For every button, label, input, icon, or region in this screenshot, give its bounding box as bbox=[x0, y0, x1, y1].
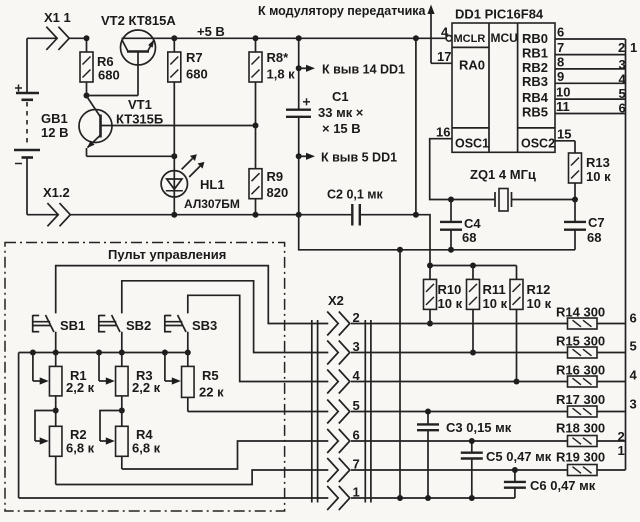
capacitor C3 bbox=[417, 412, 512, 499]
svg-text:R15 300: R15 300 bbox=[556, 334, 605, 349]
node bus-R5 wiper bbox=[162, 350, 168, 356]
IC DD1 PIC16F84 title bbox=[455, 7, 544, 22]
pin 7 RB1 wire bbox=[555, 40, 626, 55]
connector X1.2 label bbox=[43, 185, 70, 200]
svg-text:Пульт управления: Пульт управления bbox=[108, 247, 226, 262]
wire R18 to bus bbox=[597, 440, 626, 442]
IC DD1 cell labels bbox=[454, 31, 556, 151]
node C4-ground rail bbox=[448, 247, 454, 253]
svg-text:VT1: VT1 bbox=[128, 97, 152, 112]
transistor VT2 label bbox=[101, 13, 176, 28]
resistor R3 bbox=[116, 353, 161, 411]
node rail-R7 bbox=[171, 35, 177, 41]
svg-text:OSC2: OSC2 bbox=[521, 137, 555, 151]
connector X1.1 label bbox=[44, 10, 71, 25]
connector X2 pin 5 number bbox=[353, 398, 360, 413]
resistor R10 bbox=[424, 266, 463, 324]
svg-text:RB3: RB3 bbox=[522, 74, 548, 89]
wire R5 to X2 pin 5 bbox=[188, 411, 328, 413]
svg-text:OSC1: OSC1 bbox=[455, 137, 489, 151]
transistor VT2 bbox=[121, 30, 156, 96]
node R12-row4 bbox=[514, 379, 520, 385]
capacitor C6 bbox=[504, 470, 596, 498]
node R10-row2 bbox=[427, 321, 433, 327]
svg-text:17: 17 bbox=[437, 49, 451, 64]
svg-text:С4: С4 bbox=[464, 216, 481, 231]
resistor R19 bbox=[556, 450, 605, 476]
node R11-row3 bbox=[470, 350, 476, 356]
svg-text:RB0: RB0 bbox=[522, 31, 548, 46]
svg-text:R10: R10 bbox=[438, 282, 462, 297]
svg-text:+5 В: +5 В bbox=[197, 24, 225, 39]
svg-text:R14 300: R14 300 bbox=[556, 305, 605, 320]
IC DD1 body bbox=[452, 23, 555, 152]
svg-text:3: 3 bbox=[619, 57, 626, 72]
capacitor C2 bbox=[299, 188, 416, 226]
svg-text:R11: R11 bbox=[483, 282, 506, 297]
transistor VT1 labels bbox=[116, 97, 163, 127]
node C1-ground bbox=[296, 153, 302, 159]
svg-text:10 к: 10 к bbox=[438, 296, 463, 311]
node R3-R4 junction bbox=[119, 408, 125, 414]
connector X2 pin 1 number bbox=[353, 485, 360, 500]
svg-text:68: 68 bbox=[587, 230, 601, 245]
wire to pin 5 DD1 bbox=[299, 151, 397, 165]
connector X1.1 chevrons bbox=[46, 27, 69, 50]
svg-text:RB1: RB1 bbox=[522, 46, 548, 61]
resistor R14 bbox=[556, 305, 605, 330]
connector X2 pin 7 chevrons bbox=[327, 458, 350, 482]
wire R16 to bus bbox=[597, 381, 626, 383]
resistor R12 bbox=[510, 266, 552, 382]
resistor R11 bbox=[467, 266, 508, 353]
svg-text:R9: R9 bbox=[267, 169, 284, 184]
resistor R1 bbox=[49, 353, 94, 411]
node C6-row7 bbox=[512, 467, 518, 473]
net number labels at bus top bbox=[618, 40, 637, 116]
wire R15 to bus bbox=[597, 352, 626, 354]
wire X2 row 5 to resistor R17 bbox=[351, 411, 568, 413]
svg-text:× 15 В: × 15 В bbox=[322, 121, 361, 136]
wire R8 to R9 junction bbox=[255, 82, 257, 126]
pin 15 OSC2 wire bbox=[555, 127, 575, 142]
wire R14 to bus bbox=[597, 323, 626, 325]
svg-text:С3 0,15 мк: С3 0,15 мк bbox=[446, 420, 512, 435]
node header-+5V bbox=[427, 263, 433, 269]
wire SB2 net to X2 pin 3 bbox=[122, 281, 328, 353]
transistor VT1 bbox=[79, 96, 256, 156]
svg-text:6: 6 bbox=[557, 25, 564, 40]
svg-text:22 к: 22 к bbox=[199, 385, 224, 400]
wire to pin 14 DD1 bbox=[299, 63, 405, 77]
battery GB1 bbox=[14, 38, 68, 214]
wire SB1 net to X2 pin 2 bbox=[56, 266, 329, 324]
node ground-down leg bbox=[397, 247, 403, 253]
svg-text:R12: R12 bbox=[527, 282, 551, 297]
svg-text:1: 1 bbox=[630, 40, 637, 55]
svg-text:10 к: 10 к bbox=[483, 296, 508, 311]
wire pull-up header bbox=[430, 265, 517, 267]
pin 9 RB3 wire bbox=[555, 69, 626, 84]
svg-text:К модулятору передатчика: К модулятору передатчика bbox=[258, 4, 427, 18]
R1 wiper arrow bbox=[33, 353, 49, 385]
pin 6 RB0 wire bbox=[555, 25, 626, 40]
svg-text:С5 0,47 мк: С5 0,47 мк bbox=[486, 449, 552, 464]
connector X2 pin 2 chevrons bbox=[327, 312, 350, 336]
+5V label bbox=[197, 24, 225, 39]
node HL1-ground bbox=[171, 212, 177, 218]
wire R17 to bus bbox=[597, 411, 626, 413]
capacitor C5 bbox=[461, 441, 552, 498]
svg-text:R18 300: R18 300 bbox=[556, 421, 605, 436]
svg-text:6,8 к: 6,8 к bbox=[132, 441, 161, 456]
svg-text:68: 68 bbox=[462, 230, 476, 245]
svg-text:Х1 1: Х1 1 bbox=[44, 10, 71, 25]
resistor R9 bbox=[249, 126, 288, 215]
node bus-SB2 bbox=[119, 350, 125, 356]
R2 wiper arrow bbox=[35, 411, 56, 445]
wire SB3 net to X2 pin 4 bbox=[188, 295, 328, 381]
resistor R6 bbox=[80, 38, 120, 95]
resistor R15 bbox=[556, 334, 605, 359]
node R6-VT1 junction bbox=[84, 93, 90, 99]
wire common bus bbox=[19, 352, 188, 354]
LED HL1 bbox=[161, 154, 204, 214]
connector X2 pin 7 number bbox=[353, 457, 360, 472]
node +5V leg C2 bbox=[413, 212, 419, 218]
svg-text:RB2: RB2 bbox=[522, 60, 548, 75]
wire X2 row 1 ground bbox=[19, 497, 515, 499]
wire C1 ground down bbox=[298, 156, 300, 215]
wire VT1 emitter to HL1 bbox=[87, 155, 175, 157]
svg-text:MCU: MCU bbox=[491, 31, 518, 45]
svg-text:АЛ307БМ: АЛ307БМ bbox=[184, 197, 240, 211]
resistor R2 bbox=[49, 411, 94, 485]
crystal ZQ1 label bbox=[470, 167, 536, 182]
svg-text:R7: R7 bbox=[186, 50, 203, 65]
capacitor C1 bbox=[286, 38, 311, 156]
node rail-R6 bbox=[84, 35, 90, 41]
pin 4 label bbox=[441, 25, 449, 40]
pushbutton SB1 bbox=[33, 315, 86, 353]
svg-text:2: 2 bbox=[618, 40, 625, 55]
node crystal right bbox=[572, 197, 578, 203]
svg-text:SB3: SB3 bbox=[192, 318, 217, 333]
svg-text:9: 9 bbox=[557, 69, 564, 84]
resistor R16 bbox=[556, 363, 605, 388]
label X2 bbox=[328, 293, 344, 308]
connector X2 pin 3 chevrons bbox=[327, 341, 350, 365]
svg-text:5: 5 bbox=[630, 339, 637, 354]
svg-text:5: 5 bbox=[619, 86, 626, 101]
resistor R5 bbox=[182, 353, 225, 412]
wire ground rail bbox=[299, 215, 575, 250]
bus net number 4 bbox=[630, 368, 638, 383]
svg-text:VT2 КТ815А: VT2 КТ815А bbox=[101, 13, 176, 28]
wire X2 row 7 to resistor R19 bbox=[351, 469, 568, 471]
svg-text:680: 680 bbox=[186, 67, 208, 82]
node bus-SB1 bbox=[53, 350, 59, 356]
svg-text:6: 6 bbox=[619, 101, 626, 116]
node row1-ground leg bbox=[397, 495, 403, 501]
svg-text:С7: С7 bbox=[588, 215, 605, 230]
pin 16 OSC1 wire bbox=[430, 125, 452, 200]
svg-text:SB1: SB1 bbox=[60, 318, 85, 333]
svg-text:2: 2 bbox=[618, 429, 625, 444]
capacitor C4 bbox=[440, 200, 481, 250]
svg-text:R8*: R8* bbox=[267, 50, 290, 65]
connector X2 pin 5 chevrons bbox=[327, 400, 350, 424]
svg-text:К выв 5 DD1: К выв 5 DD1 bbox=[321, 151, 397, 165]
connector X2 body lines bbox=[312, 320, 371, 503]
pin 17 RA0 wire bbox=[431, 49, 452, 64]
connector X2 pin 4 number bbox=[353, 368, 361, 383]
svg-text:4: 4 bbox=[630, 368, 638, 383]
svg-text:RA0: RA0 bbox=[459, 58, 485, 73]
node crystal left bbox=[448, 197, 454, 203]
wire RA0 to modulator arrow bbox=[427, 5, 434, 64]
svg-text:11: 11 bbox=[556, 99, 570, 114]
svg-text:10: 10 bbox=[556, 85, 570, 100]
node R1-R2 junction bbox=[53, 408, 59, 414]
R3 wiper arrow bbox=[99, 353, 115, 385]
svg-text:RB4: RB4 bbox=[522, 90, 549, 105]
node R9-ground bbox=[253, 212, 259, 218]
wire X2 row 4 to resistor R16 bbox=[351, 381, 568, 383]
svg-text:33 мк ×: 33 мк × bbox=[318, 105, 364, 120]
svg-text:R16 300: R16 300 bbox=[556, 363, 605, 378]
wire X1.2 to ground line bbox=[27, 214, 299, 216]
connector X2 pin 3 number bbox=[353, 339, 360, 354]
svg-text:ZQ1 4 МГц: ZQ1 4 МГц bbox=[470, 167, 536, 182]
svg-text:Х1.2: Х1.2 bbox=[43, 185, 70, 200]
svg-text:12 В: 12 В bbox=[41, 125, 68, 140]
svg-text:3: 3 bbox=[630, 397, 637, 412]
resistor R17 bbox=[556, 392, 605, 417]
pin 11 RB5 wire bbox=[555, 99, 626, 114]
wire X2 row 3 to resistor R15 bbox=[351, 352, 568, 354]
pin 4 MCLR inversion circle bbox=[446, 35, 452, 41]
svg-text:С2 0,1 мк: С2 0,1 мк bbox=[327, 188, 384, 202]
node C5-row6 bbox=[469, 438, 475, 444]
node R8-R9-base junction bbox=[253, 123, 259, 129]
connector X2 pin 4 chevrons bbox=[327, 370, 350, 394]
connector X2 pin 6 chevrons bbox=[327, 429, 350, 453]
node bus-SB3 bbox=[185, 350, 191, 356]
node rail-+5V leg bbox=[413, 35, 419, 41]
svg-text:R19 300: R19 300 bbox=[556, 450, 605, 465]
resistor R13 bbox=[569, 141, 612, 200]
wire right bus net 1 bbox=[625, 39, 627, 470]
connector X2 pin 2 number bbox=[353, 310, 360, 325]
bus net number 1 bbox=[618, 443, 625, 458]
svg-text:8: 8 bbox=[557, 55, 564, 70]
node ground-C2 bbox=[296, 212, 302, 218]
svg-text:6: 6 bbox=[630, 311, 637, 326]
wire X2 row 2 to resistor R14 bbox=[351, 323, 568, 325]
wire +5V rail bbox=[155, 37, 446, 39]
node C5-ground bbox=[469, 495, 475, 501]
node C1 pin14 tap bbox=[296, 65, 302, 71]
resistor R18 bbox=[556, 421, 605, 447]
svg-text:GB1: GB1 bbox=[41, 111, 68, 126]
wire R4 to X2 pin 6 bbox=[122, 441, 328, 469]
bus net number 5 bbox=[630, 339, 637, 354]
svg-text:DD1 PIC16F84: DD1 PIC16F84 bbox=[455, 7, 544, 22]
svg-text:MCLR: MCLR bbox=[454, 33, 486, 45]
node rail-R8 bbox=[253, 35, 259, 41]
pin 8 RB2 wire bbox=[555, 55, 626, 70]
svg-text:R17 300: R17 300 bbox=[556, 392, 605, 407]
svg-text:С6 0,47 мк: С6 0,47 мк bbox=[530, 478, 596, 493]
bus net number 2 bbox=[618, 429, 625, 444]
node bus-R1 wiper bbox=[30, 350, 36, 356]
svg-text:R5: R5 bbox=[202, 368, 219, 383]
LED HL1 labels bbox=[184, 177, 240, 211]
node C3-row5 bbox=[425, 409, 431, 415]
svg-text:7: 7 bbox=[557, 40, 564, 55]
pin 10 RB4 wire bbox=[555, 85, 626, 100]
wire +5V distribution leg bbox=[416, 38, 430, 265]
svg-text:4: 4 bbox=[441, 25, 449, 40]
wire VT2 base to R6 node bbox=[87, 95, 139, 97]
crystal ZQ1 bbox=[451, 189, 575, 212]
svg-text:К выв 14 DD1: К выв 14 DD1 bbox=[322, 63, 405, 77]
svg-text:2,2 к: 2,2 к bbox=[132, 380, 161, 395]
svg-text:HL1: HL1 bbox=[200, 177, 225, 192]
node bus-R3 wiper bbox=[96, 350, 102, 356]
wire ground leg to X2 pin1 bbox=[399, 250, 401, 498]
wire R19 to bus bbox=[597, 469, 626, 471]
capacitor C1 labels bbox=[318, 89, 364, 136]
wire R2 to X2 pin 7 bbox=[56, 470, 329, 485]
svg-text:820: 820 bbox=[267, 185, 289, 200]
svg-text:С1: С1 bbox=[332, 89, 349, 104]
wire +12V input from X1.1 bbox=[27, 37, 87, 39]
pushbutton SB3 bbox=[165, 315, 217, 353]
connector X2 pin 6 number bbox=[353, 428, 360, 443]
svg-text:4: 4 bbox=[619, 72, 627, 87]
control panel label bbox=[108, 247, 226, 262]
svg-text:16: 16 bbox=[436, 125, 450, 140]
wire X2 row 6 to resistor R18 bbox=[351, 440, 568, 442]
resistor R4 bbox=[116, 411, 161, 470]
control panel box bbox=[5, 243, 285, 512]
node rail-C1 bbox=[296, 35, 302, 41]
bus net number 6 bbox=[630, 311, 637, 326]
svg-text:10 к: 10 к bbox=[527, 296, 552, 311]
wire bus to X2 pin 1 bbox=[18, 353, 20, 499]
connector X2 pin 1 chevrons bbox=[327, 486, 350, 510]
connector X1.2 chevrons bbox=[47, 203, 70, 226]
R4 wiper arrow bbox=[100, 411, 122, 445]
svg-text:Х2: Х2 bbox=[328, 293, 344, 308]
resistor R8 bbox=[249, 38, 295, 82]
R5 wiper arrow bbox=[165, 353, 181, 385]
pushbutton SB2 bbox=[99, 315, 151, 353]
svg-text:2,2 к: 2,2 к bbox=[66, 380, 95, 395]
svg-text:SB2: SB2 bbox=[126, 318, 151, 333]
svg-text:680: 680 bbox=[98, 68, 120, 83]
svg-text:R13: R13 bbox=[586, 155, 610, 170]
svg-text:1,8 к: 1,8 к bbox=[267, 67, 296, 82]
svg-text:15: 15 bbox=[557, 127, 571, 142]
svg-text:КТ315Б: КТ315Б bbox=[116, 112, 163, 127]
node emitter-R7-HL1 bbox=[171, 153, 177, 159]
svg-text:RB5: RB5 bbox=[522, 104, 548, 119]
node header-R11 bbox=[470, 263, 476, 269]
svg-text:1: 1 bbox=[618, 443, 625, 458]
resistor R7 bbox=[168, 38, 208, 156]
capacitor C7 bbox=[564, 200, 605, 250]
bus net number 3 bbox=[630, 397, 637, 412]
node C3-ground bbox=[425, 495, 431, 501]
svg-text:6,8 к: 6,8 к bbox=[66, 441, 95, 456]
svg-text:10 к: 10 к bbox=[586, 169, 611, 184]
label to modulator bbox=[258, 4, 427, 18]
